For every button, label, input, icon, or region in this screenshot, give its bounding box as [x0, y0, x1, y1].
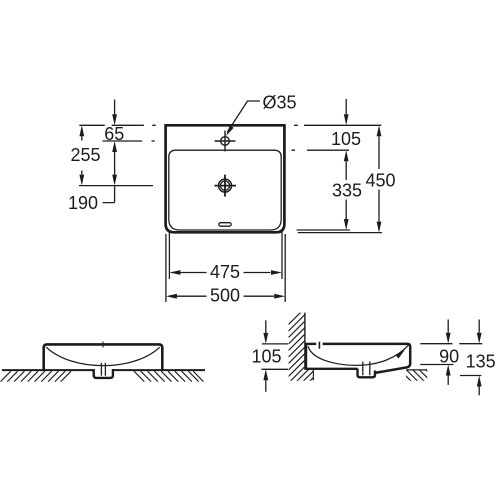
- extension line: side bottom (135): [460, 375, 481, 377]
- svg-text:90: 90: [439, 346, 459, 366]
- dimension 335: arrow at inner rim top: [344, 150, 349, 161]
- svg-text:105: 105: [331, 129, 361, 149]
- bowl curve (side view): [308, 345, 408, 365]
- drain inner circle: [220, 181, 229, 190]
- basin top edge segment 1 (side view): [305, 343, 316, 345]
- dimension 500: line segments: [177, 295, 274, 297]
- ground hatching right: [134, 371, 204, 381]
- ground line: [2, 369, 205, 371]
- dimension 255: arrows: [79, 125, 84, 136]
- leader line for Ø35: [227, 101, 260, 132]
- svg-text:500: 500: [210, 286, 240, 306]
- wall hatching: [289, 298, 315, 402]
- extension line: drain level (left): [79, 185, 153, 187]
- dimension 190: bent leader: [103, 186, 115, 203]
- centerline tick (front view): [102, 342, 104, 348]
- bowl curve (front view): [46, 347, 159, 365]
- drain pipe (front view): [101, 363, 105, 376]
- dimension 335: line segments: [345, 161, 347, 219]
- dimension 190: arrow at faucet line: [112, 141, 117, 152]
- faucet hole circle: [221, 137, 230, 146]
- dimension 450: line segments: [378, 136, 380, 221]
- dimension 90: top arrow with tail: [447, 320, 449, 333]
- basin outer rim (top view): [166, 125, 285, 232]
- drain pipe (side view): [363, 362, 370, 376]
- dimension 450: arrow at bottom: [377, 222, 382, 233]
- extension line: inner right (bottom dims): [281, 232, 283, 280]
- extension line: outer left (bottom dims): [165, 234, 167, 302]
- basin back bottom edge (side view): [305, 368, 358, 370]
- dimension 500: left arrow: [166, 294, 177, 299]
- dimension 190: arrow at drain line: [112, 175, 117, 186]
- extension line: outer right (bottom dims): [284, 234, 286, 302]
- extension line: side top (105): [262, 343, 288, 345]
- dimension 255: line stubs: [81, 136, 83, 174]
- svg-text:Ø35: Ø35: [263, 92, 297, 112]
- drain outer circle: [219, 179, 232, 192]
- dimension 65: upper arrow with tail: [114, 100, 116, 115]
- svg-text:335: 335: [332, 180, 362, 200]
- counter support hatching (side view): [400, 370, 438, 382]
- leader arrowhead Ø35: [226, 125, 234, 136]
- drain trap box (side view): [358, 369, 376, 378]
- dimension 105 (top view): upper arrow with tail: [345, 99, 347, 114]
- extension line: side bottom (105): [262, 368, 289, 370]
- extension line: inner rim bottom (right): [297, 229, 350, 231]
- counter support top line (side view): [406, 369, 427, 371]
- basin inner rim (top view): [169, 150, 281, 230]
- svg-text:135: 135: [466, 352, 496, 372]
- wall hatch lower boundary tick: [312, 370, 314, 381]
- overflow arrowhead (side view): [396, 350, 405, 359]
- basin top edge + right edge + front underside (side view): [323, 344, 411, 373]
- svg-text:255: 255: [70, 145, 100, 165]
- faucet hole crosshair: [215, 131, 236, 152]
- dimension 105 (side): bottom arrow with tail: [265, 380, 267, 392]
- dimension 190: line between arrows: [114, 152, 116, 175]
- dimension 135: bottom arrow with tail: [478, 387, 480, 396]
- basin outline (front view): [44, 344, 163, 370]
- svg-text:450: 450: [365, 170, 395, 190]
- extension line: faucet level (left): [102, 140, 154, 142]
- svg-text:65: 65: [104, 124, 124, 144]
- drain trap box (front view): [94, 369, 113, 378]
- extension line: side top (90): [420, 343, 452, 345]
- dimension 105 (side): top arrow with tail: [265, 320, 267, 333]
- dimension 135: top arrow with tail: [478, 320, 480, 333]
- faucet hole tick (side view): [318, 342, 320, 349]
- extension line: side top (135): [459, 343, 482, 345]
- drain crosshair: [214, 175, 236, 197]
- extension line: basin top edge (right): [294, 124, 381, 126]
- dimension 500: right arrow: [274, 294, 285, 299]
- dimension 475: right arrow: [271, 270, 282, 275]
- svg-text:190: 190: [68, 193, 98, 213]
- dimension 475: line segments: [180, 272, 270, 274]
- dimension 335: arrow at inner rim bottom: [344, 219, 349, 230]
- ground hatching left: [1, 371, 72, 381]
- extension line: basin bottom edge (right): [298, 232, 382, 234]
- extension line: inner rim top (right): [292, 149, 350, 151]
- overflow slot: [219, 223, 231, 227]
- extension line: side bottom (90): [420, 364, 453, 366]
- svg-text:475: 475: [210, 262, 240, 282]
- extension line: inner left (bottom dims): [168, 232, 170, 280]
- dimension 90: bottom arrow with tail: [447, 376, 449, 385]
- wall face line: [304, 313, 306, 370]
- basin back edge (side view): [305, 344, 307, 369]
- svg-text:105: 105: [251, 346, 281, 366]
- dimension 475: left arrow: [169, 270, 180, 275]
- extension line: basin top edge (left): [79, 124, 156, 126]
- dimension 450: arrow at top: [377, 125, 382, 136]
